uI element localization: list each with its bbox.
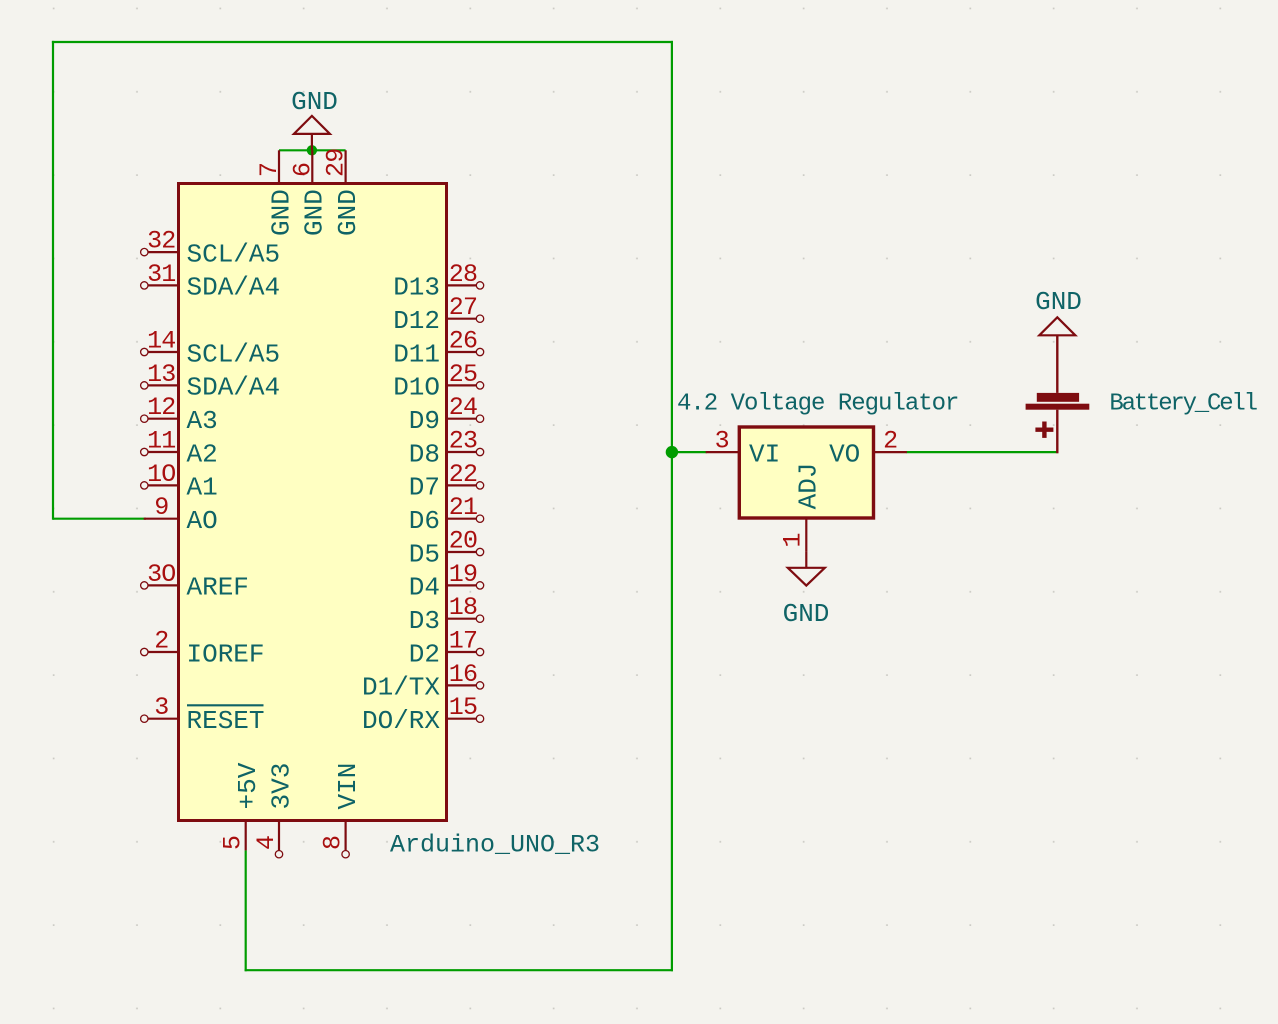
pin 11 A2 (left) — [141, 427, 218, 470]
pin 9 AO (left) — [144, 493, 218, 536]
svg-text:GND: GND — [333, 189, 363, 236]
pin 17 D2 (right) — [409, 627, 484, 670]
pin 29 GND (top) — [322, 149, 363, 236]
pin 18 D3 (right) — [409, 593, 484, 636]
svg-text:RESET: RESET — [187, 706, 265, 736]
pin 6 GND (top) — [288, 150, 329, 236]
svg-text:A1: A1 — [187, 473, 218, 503]
svg-text:16: 16 — [449, 660, 477, 689]
regulator U2 4.2 Voltage Regulator body — [739, 427, 873, 518]
svg-text:GND: GND — [783, 599, 830, 629]
pin 1 ADJ (regulator bottom) — [778, 463, 823, 552]
pin 14 SCL/A5 (left) — [141, 327, 281, 370]
svg-text:23: 23 — [449, 427, 477, 456]
svg-text:1: 1 — [778, 533, 807, 547]
svg-text:3O: 3O — [147, 560, 175, 589]
svg-text:D1/TX: D1/TX — [362, 673, 440, 703]
svg-text:21: 21 — [449, 493, 477, 522]
pin 2 VO (regulator right) — [829, 427, 907, 470]
junction: VI node on right vertical wire — [666, 446, 678, 458]
pin 3O AREF (left) — [141, 560, 249, 603]
svg-text:VIN: VIN — [333, 763, 363, 810]
svg-text:SDA/A4: SDA/A4 — [187, 373, 281, 403]
power symbol GND (top, pins 6/7/29) — [291, 87, 338, 150]
svg-text:D5: D5 — [409, 539, 440, 569]
svg-text:31: 31 — [147, 260, 175, 289]
pin 5 +5V (bottom) — [219, 762, 263, 850]
svg-text:GND: GND — [266, 189, 296, 236]
pin 28 D13 (right) — [393, 260, 484, 303]
svg-text:GND: GND — [1035, 287, 1082, 317]
svg-text:Arduino_UNO_R3: Arduino_UNO_R3 — [390, 831, 600, 860]
svg-text:27: 27 — [449, 293, 477, 322]
op-amp substitute: Arduino_UNO_R3 U1 body — [179, 184, 447, 821]
svg-text:3V3: 3V3 — [266, 763, 296, 810]
svg-text:+5V: +5V — [233, 762, 263, 809]
svg-text:9: 9 — [154, 493, 168, 522]
pin 26 D11 (right) — [393, 327, 484, 370]
svg-text:28: 28 — [449, 260, 477, 289]
svg-text:D7: D7 — [409, 473, 440, 503]
svg-text:GND: GND — [300, 189, 330, 236]
pin 19 D4 (right) — [409, 560, 484, 603]
svg-text:25: 25 — [449, 360, 477, 389]
svg-text:5: 5 — [219, 836, 248, 850]
svg-text:32: 32 — [147, 227, 175, 256]
svg-text:26: 26 — [449, 327, 477, 356]
svg-text:4.2 Voltage Regulator: 4.2 Voltage Regulator — [677, 391, 958, 418]
pin 3 RESET (left) — [141, 693, 265, 736]
pin 12 A3 (left) — [141, 393, 218, 436]
svg-text:15: 15 — [449, 693, 477, 722]
wire: bottom horizontal segment — [245, 969, 673, 971]
svg-text:D13: D13 — [393, 273, 440, 303]
pin 8 VIN (bottom) — [319, 763, 363, 858]
svg-text:2: 2 — [883, 427, 897, 456]
svg-text:12: 12 — [147, 393, 175, 422]
svg-text:24: 24 — [449, 393, 477, 422]
svg-text:SDA/A4: SDA/A4 — [187, 273, 281, 303]
svg-text:D11: D11 — [393, 339, 440, 369]
svg-text:D8: D8 — [409, 439, 440, 469]
pin 1O A1 (left) — [141, 460, 218, 503]
svg-text:1O: 1O — [147, 460, 175, 489]
pin 20 D5 (right) — [409, 527, 484, 570]
junction: top GND node — [307, 145, 317, 155]
svg-text:22: 22 — [449, 460, 477, 489]
svg-text:GND: GND — [291, 87, 338, 117]
wire: top horizontal segment — [52, 41, 673, 43]
svg-text:DO/RX: DO/RX — [362, 706, 440, 736]
svg-text:14: 14 — [147, 327, 175, 356]
pin 25 D1O (right) — [393, 360, 484, 403]
svg-text:AO: AO — [187, 506, 218, 536]
svg-text:17: 17 — [449, 627, 477, 656]
svg-text:13: 13 — [147, 360, 175, 389]
pin 3 VI (regulator left) — [706, 427, 781, 470]
battery BT1 Battery_Cell — [1026, 390, 1258, 453]
svg-text:VI: VI — [749, 439, 780, 469]
svg-text:11: 11 — [147, 427, 175, 456]
wire: left vertical segment — [52, 41, 54, 520]
svg-text:3: 3 — [154, 693, 168, 722]
pin 15 DO/RX (right) — [362, 693, 484, 736]
svg-text:Battery_Cell: Battery_Cell — [1109, 390, 1257, 417]
svg-text:3: 3 — [715, 427, 729, 456]
svg-text:AREF: AREF — [187, 573, 249, 603]
pin 7 GND (top) — [255, 150, 296, 236]
power symbol GND (regulator ADJ) — [783, 552, 830, 629]
pin 22 D7 (right) — [409, 460, 484, 503]
svg-text:2: 2 — [154, 627, 168, 656]
svg-text:D4: D4 — [409, 573, 440, 603]
svg-text:D2: D2 — [409, 639, 440, 669]
svg-text:7: 7 — [255, 163, 284, 177]
svg-text:A2: A2 — [187, 439, 218, 469]
pin 23 D8 (right) — [409, 427, 484, 470]
svg-text:D6: D6 — [409, 506, 440, 536]
svg-text:20: 20 — [449, 527, 477, 556]
svg-text:SCL/A5: SCL/A5 — [187, 339, 281, 369]
wire: VO pin to battery + — [906, 451, 1058, 453]
svg-text:4: 4 — [252, 836, 281, 850]
pin 2 IOREF (left) — [141, 627, 265, 670]
wire: +5V pin 5 vertical segment — [245, 850, 247, 971]
pin 32 SCL/A5 (left) — [141, 227, 281, 270]
svg-text:D9: D9 — [409, 406, 440, 436]
svg-text:A3: A3 — [187, 406, 218, 436]
pin 24 D9 (right) — [409, 393, 484, 436]
pin 31 SDA/A4 (left) — [141, 260, 281, 303]
svg-text:D12: D12 — [393, 306, 440, 336]
svg-text:SCL/A5: SCL/A5 — [187, 239, 281, 269]
wire: top GND bus over pins 7,6,29 — [279, 149, 346, 151]
svg-text:D3: D3 — [409, 606, 440, 636]
svg-text:D1O: D1O — [393, 373, 440, 403]
svg-text:VO: VO — [829, 439, 860, 469]
svg-text:18: 18 — [449, 593, 477, 622]
svg-text:29: 29 — [322, 149, 351, 177]
pin 27 D12 (right) — [393, 293, 484, 336]
wire: right vertical segment — [671, 41, 673, 971]
wire: A0 to left vertical — [53, 518, 146, 520]
svg-text:19: 19 — [449, 560, 477, 589]
svg-text:8: 8 — [319, 836, 348, 850]
pin 13 SDA/A4 (left) — [141, 360, 281, 403]
pin 4 3V3 (bottom) — [252, 763, 296, 858]
pin 21 D6 (right) — [409, 493, 484, 536]
svg-text:IOREF: IOREF — [187, 639, 265, 669]
wire: junction to VI pin — [672, 451, 707, 453]
svg-text:ADJ: ADJ — [794, 463, 824, 510]
power symbol GND (battery) — [1035, 287, 1082, 393]
pin 16 D1/TX (right) — [362, 660, 484, 703]
svg-text:6: 6 — [288, 163, 317, 177]
